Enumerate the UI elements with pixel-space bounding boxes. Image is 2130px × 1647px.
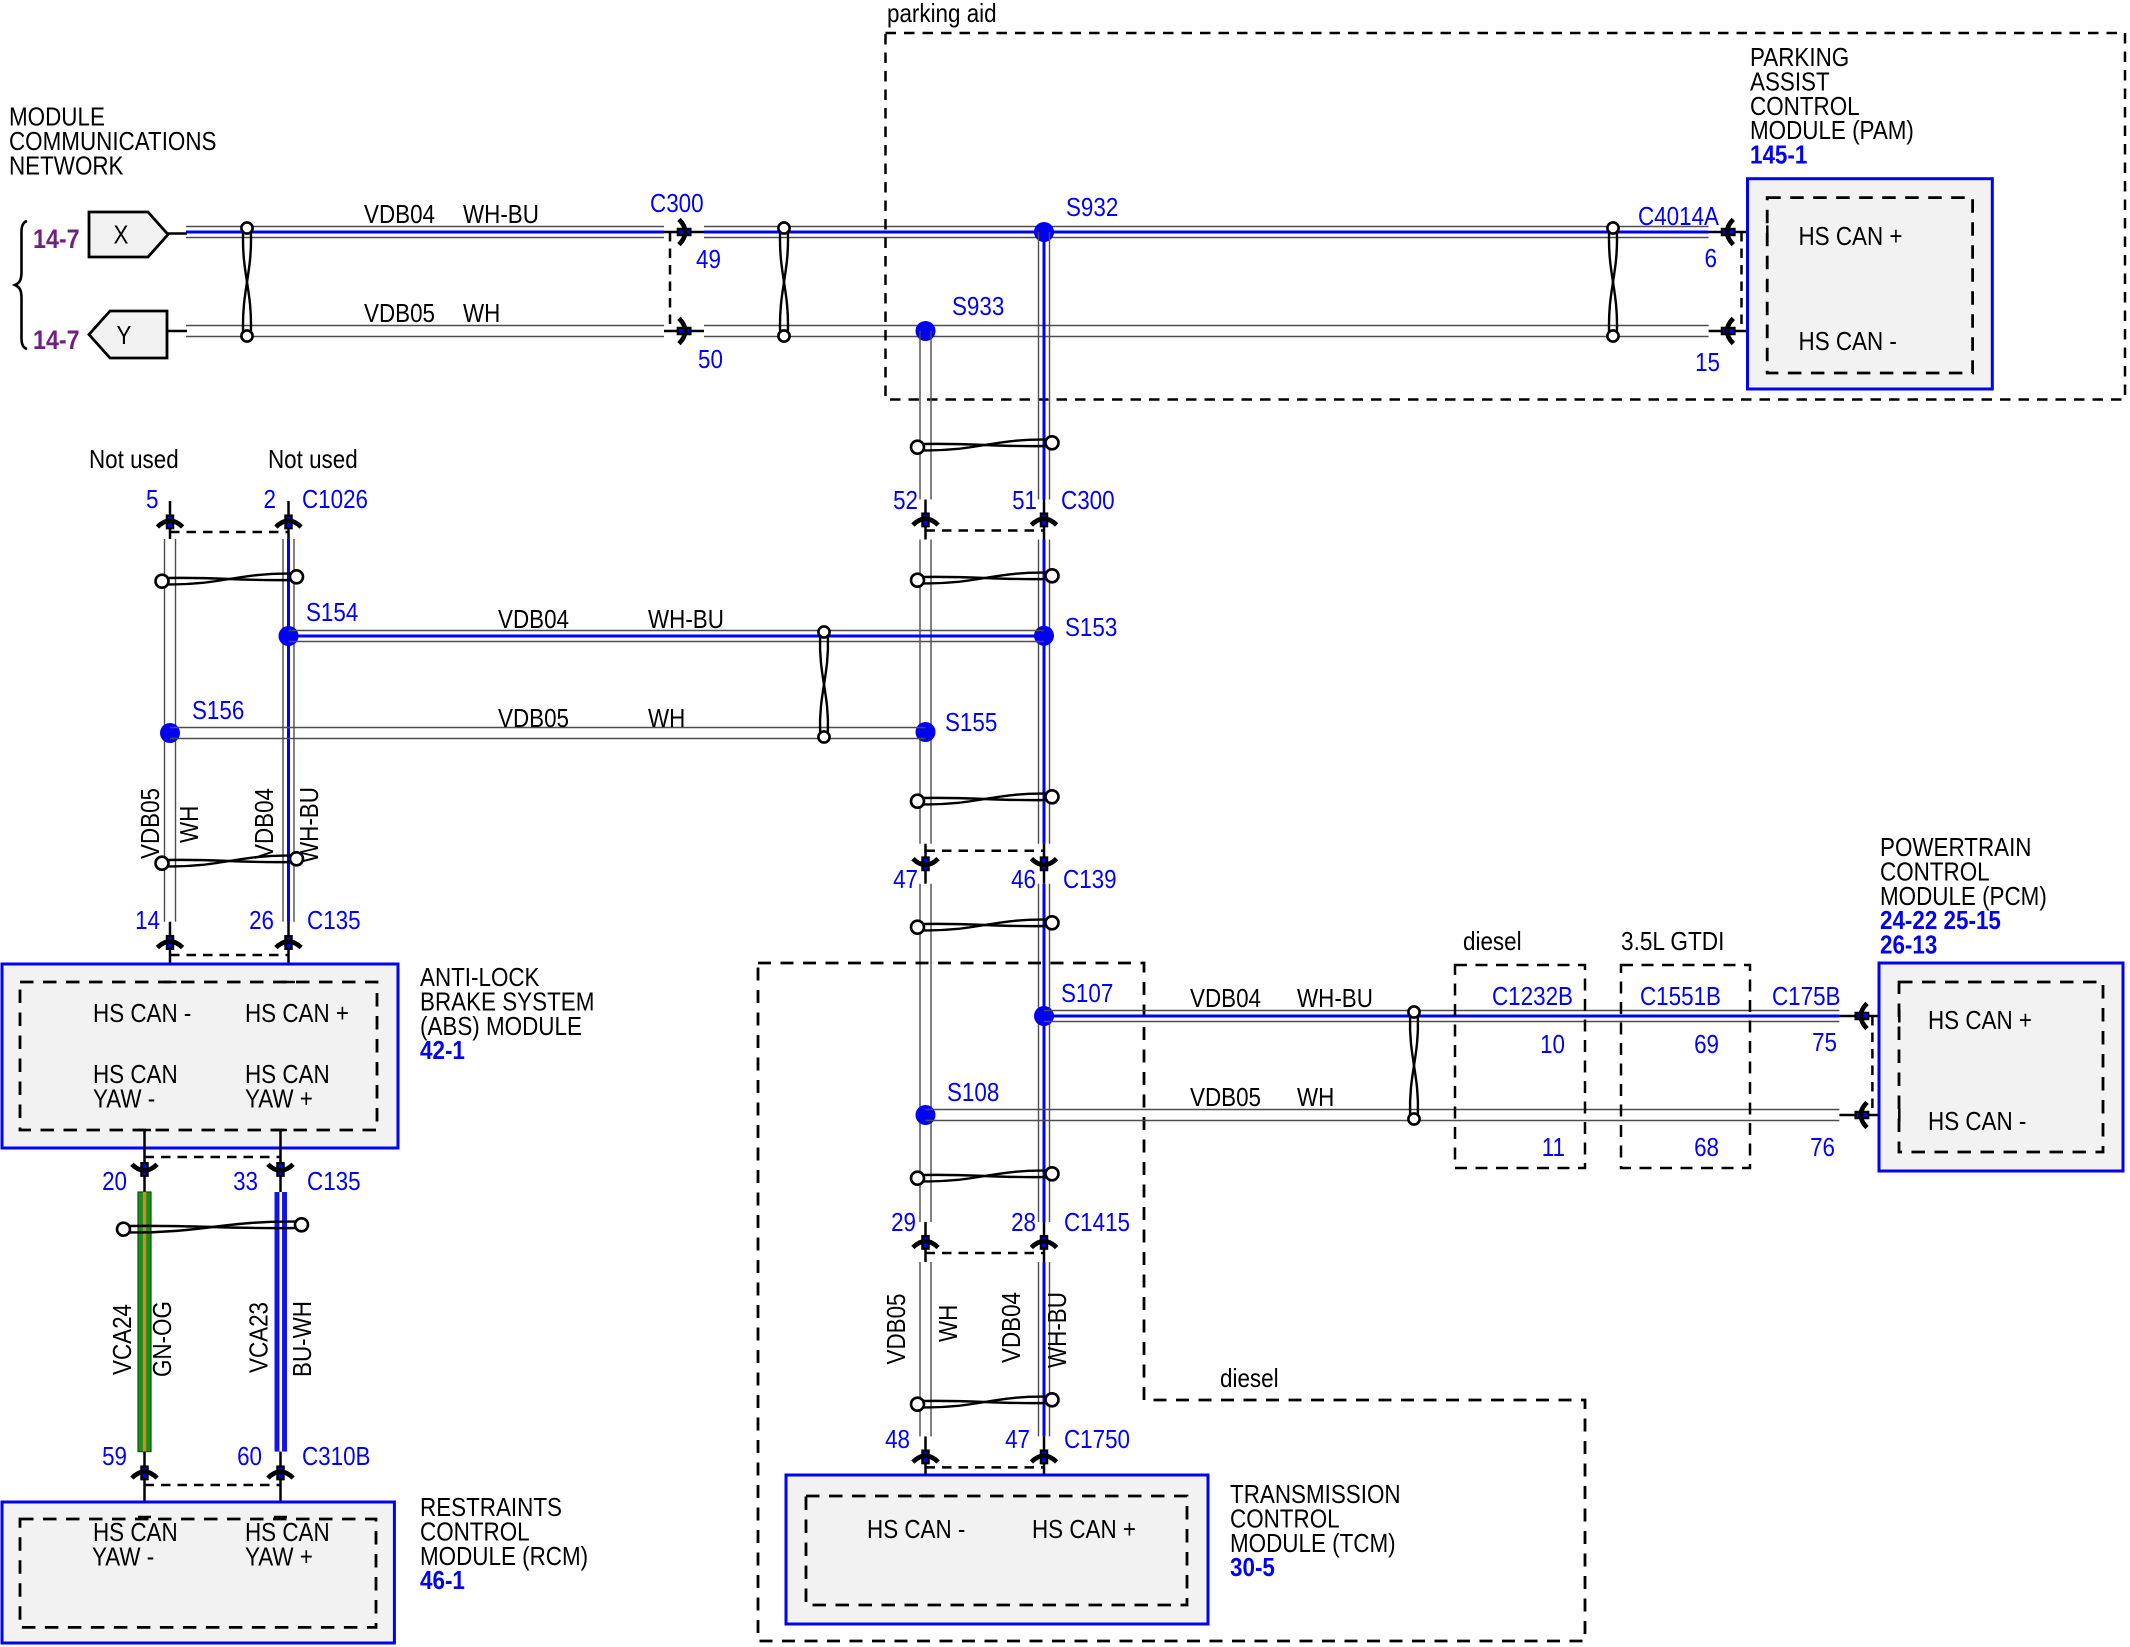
svg-text:diesel: diesel — [1220, 1363, 1279, 1393]
svg-text:20: 20 — [102, 1166, 127, 1196]
brace for off-page references — [15, 221, 27, 349]
svg-text:HS CAN -: HS CAN - — [1799, 326, 1897, 356]
svg-text:HS CAN +: HS CAN + — [1928, 1005, 2032, 1035]
twisted pair symbol (after C300) — [780, 233, 788, 332]
pin 60 — [268, 1467, 293, 1480]
svg-text:VDB04: VDB04 — [498, 604, 569, 634]
svg-text:33: 33 — [233, 1166, 258, 1196]
wire VCA23 BU-WH — [275, 1192, 288, 1452]
connector C1750 pins 48/47 at TCM — [924, 1436, 927, 1496]
pin 47 — [913, 858, 938, 871]
pin 76 — [1856, 1102, 1869, 1127]
svg-text:WH-BU: WH-BU — [1297, 983, 1373, 1013]
svg-text:C1232B: C1232B — [1492, 981, 1573, 1011]
connector C139 pins 47/46 — [924, 844, 927, 884]
svg-text:30-5: 30-5 — [1230, 1552, 1275, 1582]
wire VDB05 vertical run from S933 — [919, 331, 921, 500]
wire VDB04 WH-BU run S107 to PCM — [1044, 1010, 1839, 1012]
svg-text:WH-BU: WH-BU — [1042, 1292, 1072, 1368]
svg-text:C1026: C1026 — [302, 484, 368, 514]
wire stub from X — [168, 232, 187, 235]
harness boundary: diesel (TCM region) — [758, 963, 1585, 1641]
svg-text:S107: S107 — [1061, 978, 1113, 1008]
svg-text:S155: S155 — [945, 707, 997, 737]
pin 2 — [276, 516, 301, 529]
svg-text:49: 49 — [696, 244, 721, 274]
svg-text:14-7: 14-7 — [33, 325, 80, 355]
wire VDB05 WH branch S156 to S155 — [170, 727, 926, 729]
svg-text:WH: WH — [648, 703, 685, 733]
twisted pair symbol (left column lower) — [167, 860, 291, 862]
connector C300 pins 52/51 — [924, 500, 927, 540]
pin tick 14 — [164, 981, 177, 984]
svg-text:VDB04: VDB04 — [996, 1292, 1026, 1363]
pin 75 — [1856, 1003, 1869, 1028]
svg-text:WH: WH — [174, 806, 204, 843]
pin 49 — [678, 219, 691, 244]
wire VDB04 vertical run C300 to C139 — [1038, 540, 1040, 844]
svg-text:WH-BU: WH-BU — [648, 604, 724, 634]
svg-text:42-1: 42-1 — [420, 1035, 465, 1065]
svg-text:47: 47 — [893, 864, 918, 894]
wire VDB04 WH-BU vertical, C1415 to C1750 — [1038, 1262, 1040, 1436]
svg-text:BU-WH: BU-WH — [287, 1301, 317, 1377]
svg-text:11: 11 — [1542, 1132, 1565, 1162]
svg-text:S933: S933 — [952, 291, 1004, 321]
pin tick 15 — [1766, 325, 1769, 338]
svg-text:2: 2 — [264, 484, 277, 514]
splice S154 — [279, 626, 299, 646]
module: TRANSMISSION CONTROL MODULE (TCM) — [786, 1475, 1208, 1624]
twisted pair symbol (left column upper) — [167, 578, 291, 580]
twisted pair symbol (above C1415) — [923, 1175, 1047, 1177]
wire VDB04 WH-BU left vertical run — [282, 539, 284, 922]
svg-text:Not used: Not used — [268, 444, 358, 474]
svg-text:VDB05: VDB05 — [881, 1294, 911, 1365]
twisted pair symbol (above C139) — [923, 798, 1047, 800]
twisted pair symbol (above C1750) — [923, 1401, 1047, 1403]
wire VDB05 WH left vertical run — [164, 539, 166, 922]
svg-text:10: 10 — [1540, 1029, 1565, 1059]
pin 6 — [1722, 219, 1735, 244]
svg-text:75: 75 — [1812, 1027, 1837, 1057]
wire VDB05 WH run S108 to PCM — [926, 1109, 1840, 1111]
svg-text:WH-BU: WH-BU — [463, 199, 539, 229]
svg-text:S108: S108 — [947, 1077, 999, 1107]
svg-text:diesel: diesel — [1463, 926, 1522, 956]
svg-text:VDB05: VDB05 — [498, 703, 569, 733]
svg-text:59: 59 — [102, 1441, 127, 1471]
twisted pair symbol (below C300 52/51) — [923, 577, 1047, 579]
wire VDB05 vertical run C139 to C1415 — [919, 884, 921, 1222]
connector C135 pins 20/33 below ABS — [143, 1130, 146, 1192]
connector C310B pins 59/60 at RCM — [143, 1452, 146, 1517]
splice S153 — [1034, 626, 1054, 646]
svg-text:Not used: Not used — [89, 444, 179, 474]
svg-text:HS CAN +: HS CAN + — [245, 998, 349, 1028]
pin tick 48 — [919, 1495, 932, 1498]
pin 52 — [913, 514, 938, 527]
pin tick 20 — [138, 1129, 151, 1132]
twisted pair symbol (top left) — [243, 233, 251, 332]
connector C1026 pins 5/2 — [169, 501, 172, 539]
connector Y (network terminal) — [89, 311, 167, 358]
wire VDB05 WH vertical, C1415 to C1750 — [919, 1262, 921, 1436]
svg-text:46-1: 46-1 — [420, 1565, 465, 1595]
svg-text:S932: S932 — [1066, 192, 1118, 222]
svg-text:C139: C139 — [1063, 864, 1117, 894]
svg-text:76: 76 — [1810, 1132, 1835, 1162]
splice S932 — [1034, 222, 1054, 242]
svg-text:51: 51 — [1012, 485, 1037, 515]
twisted pair symbol (before PAM) — [1609, 233, 1617, 332]
svg-text:C1415: C1415 — [1064, 1207, 1130, 1237]
svg-text:6: 6 — [1705, 243, 1718, 273]
svg-text:145-1: 145-1 — [1750, 140, 1807, 170]
svg-text:VDB05: VDB05 — [364, 298, 435, 328]
pin tick 75 — [1898, 1010, 1901, 1023]
pin tick 59 — [138, 1516, 151, 1519]
pin tick 47 — [1038, 1495, 1051, 1498]
svg-text:GN-OG: GN-OG — [147, 1301, 177, 1377]
twisted pair symbol (on S154/S156 branch) — [820, 637, 828, 733]
svg-text:YAW -: YAW - — [92, 1541, 154, 1571]
wire VDB05 vertical run C300 to C139 — [919, 540, 921, 844]
pin 20 — [132, 1163, 157, 1176]
splice S933 — [916, 321, 936, 341]
module: POWERTRAIN CONTROL MODULE (PCM) — [1879, 963, 2123, 1171]
svg-text:C1750: C1750 — [1064, 1424, 1130, 1454]
wire VDB04 WH-BU run, C300 to PAM — [704, 226, 1709, 228]
pin 59 — [132, 1467, 157, 1480]
pin 46 — [1031, 858, 1056, 871]
wire VDB05 WH run, C300 to PAM — [704, 325, 1709, 327]
pin 33 — [268, 1163, 293, 1176]
svg-text:C4014A: C4014A — [1638, 201, 1720, 231]
wire VCA24 GN-OG — [138, 1192, 151, 1452]
pin 5 — [157, 516, 182, 529]
svg-text:C300: C300 — [650, 188, 704, 218]
splice S108 — [916, 1105, 936, 1125]
wire VDB05 WH top run, Y to C300 — [186, 325, 664, 327]
wire VDB04 WH-BU top run, X to C300 — [186, 226, 664, 228]
module: ANTI-LOCK BRAKE SYSTEM (ABS) MODULE — [2, 964, 398, 1148]
svg-text:C175B: C175B — [1772, 981, 1841, 1011]
svg-text:WH: WH — [1297, 1082, 1334, 1112]
svg-text:VCA23: VCA23 — [244, 1302, 274, 1373]
wire stub from Y — [167, 330, 187, 333]
svg-text:C310B: C310B — [302, 1441, 371, 1471]
twisted pair symbol (below C139) — [923, 924, 1047, 926]
splice S107 — [1034, 1006, 1054, 1026]
svg-text:HS CAN -: HS CAN - — [867, 1514, 965, 1544]
svg-text:S156: S156 — [192, 695, 244, 725]
pin 26 — [276, 936, 301, 949]
svg-text:X: X — [114, 220, 129, 250]
splice S156 — [160, 723, 180, 743]
svg-text:48: 48 — [885, 1424, 910, 1454]
svg-text:69: 69 — [1694, 1029, 1719, 1059]
pin 14 — [157, 936, 182, 949]
svg-text:14: 14 — [135, 905, 160, 935]
svg-text:46: 46 — [1011, 864, 1036, 894]
svg-text:C300: C300 — [1061, 485, 1115, 515]
svg-text:C135: C135 — [307, 1166, 361, 1196]
pin 47 — [1031, 1451, 1056, 1464]
svg-text:HS CAN -: HS CAN - — [1928, 1106, 2026, 1136]
svg-text:YAW +: YAW + — [245, 1083, 313, 1113]
svg-text:47: 47 — [1005, 1424, 1030, 1454]
svg-text:VDB04: VDB04 — [1190, 983, 1261, 1013]
twisted pair symbol (before C1232B) — [1410, 1017, 1418, 1115]
module: PARKING ASSIST CONTROL MODULE (PAM) — [1748, 179, 1993, 389]
pin tick 33 — [274, 1129, 287, 1132]
svg-text:YAW +: YAW + — [245, 1541, 313, 1571]
svg-text:parking aid: parking aid — [887, 0, 997, 28]
twisted pair symbol (VCA24/VCA23) — [129, 1226, 297, 1228]
svg-text:YAW -: YAW - — [93, 1083, 155, 1113]
pin 50 — [678, 318, 691, 343]
svg-text:HS CAN +: HS CAN + — [1032, 1514, 1136, 1544]
svg-text:14-7: 14-7 — [33, 224, 80, 254]
pin tick 60 — [274, 1516, 287, 1519]
wire VDB04 vertical run from S932 — [1038, 232, 1040, 500]
pin tick 6 — [1766, 226, 1769, 239]
pin 15 — [1722, 318, 1735, 343]
svg-text:15: 15 — [1695, 347, 1720, 377]
svg-text:VDB04: VDB04 — [364, 199, 435, 229]
pin 48 — [913, 1451, 938, 1464]
connector C1415 pins 29/28 — [924, 1222, 927, 1262]
svg-text:52: 52 — [893, 485, 918, 515]
svg-text:S153: S153 — [1065, 612, 1117, 642]
svg-text:26: 26 — [249, 905, 274, 935]
svg-text:C135: C135 — [307, 905, 361, 935]
svg-text:28: 28 — [1011, 1207, 1036, 1237]
pin tick 26 — [282, 981, 295, 984]
pin 28 — [1031, 1236, 1056, 1249]
svg-text:HS CAN -: HS CAN - — [93, 998, 191, 1028]
svg-text:29: 29 — [891, 1207, 916, 1237]
connector C135 pins 14/26 at ABS — [169, 922, 172, 982]
svg-text:VCA24: VCA24 — [107, 1304, 137, 1375]
svg-text:50: 50 — [698, 344, 723, 374]
svg-text:WH: WH — [933, 1305, 963, 1342]
pin tick 76 — [1898, 1109, 1901, 1122]
pin 51 — [1031, 514, 1056, 527]
svg-text:NETWORK: NETWORK — [9, 150, 124, 180]
connector X (network terminal) — [89, 212, 168, 257]
svg-text:VDB04: VDB04 — [249, 788, 279, 859]
svg-text:HS CAN +: HS CAN + — [1799, 221, 1903, 251]
splice S155 — [916, 722, 936, 742]
svg-text:C1551B: C1551B — [1640, 981, 1721, 1011]
svg-text:5: 5 — [146, 484, 159, 514]
module: RESTRAINTS CONTROL MODULE (RCM) — [2, 1502, 394, 1643]
svg-text:68: 68 — [1694, 1132, 1719, 1162]
svg-text:S154: S154 — [306, 597, 358, 627]
svg-text:26-13: 26-13 — [1880, 930, 1937, 960]
svg-text:60: 60 — [237, 1441, 262, 1471]
twisted pair symbol (above C300 52/51) — [923, 444, 1047, 446]
wire VDB04 WH-BU branch S154 to S153 — [289, 630, 1045, 632]
pin 29 — [913, 1236, 938, 1249]
svg-text:VDB05: VDB05 — [135, 788, 165, 859]
wire VDB04 vertical run C139 to C1415 — [1038, 884, 1040, 1222]
svg-text:3.5L GTDI: 3.5L GTDI — [1621, 926, 1724, 956]
svg-text:Y: Y — [117, 320, 132, 350]
svg-text:WH: WH — [463, 298, 500, 328]
svg-text:VDB05: VDB05 — [1190, 1082, 1261, 1112]
